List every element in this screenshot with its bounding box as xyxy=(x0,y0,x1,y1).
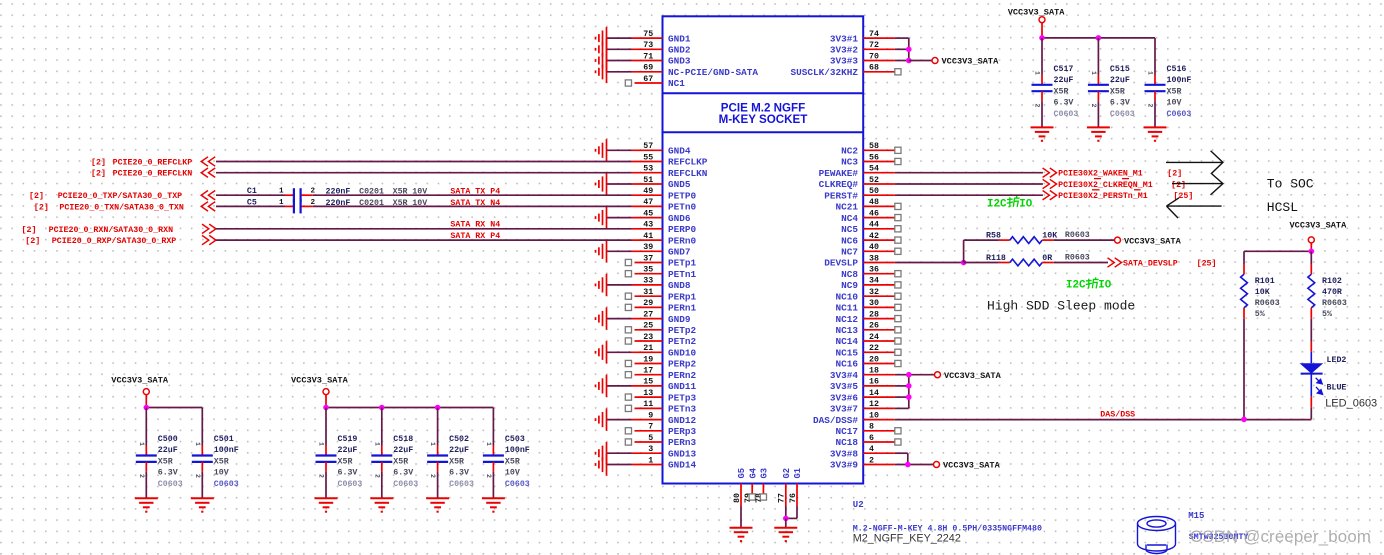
svg-text:VCC3V3_SATA: VCC3V3_SATA xyxy=(111,376,169,386)
svg-text:10V: 10V xyxy=(505,469,520,478)
svg-text:NC-PCIE/GND-SATA: NC-PCIE/GND-SATA xyxy=(668,67,758,78)
svg-text:X5R: X5R xyxy=(338,457,353,466)
svg-text:GND9: GND9 xyxy=(668,314,691,325)
pin 72 3V3#2 xyxy=(830,41,909,55)
svg-text:2: 2 xyxy=(1147,104,1154,108)
pin 52 CLKREQ# xyxy=(819,176,895,190)
annotation arrow right 2 xyxy=(1172,183,1223,185)
svg-text:PERp3: PERp3 xyxy=(668,426,697,437)
svg-text:C0603: C0603 xyxy=(1167,110,1192,119)
pin 11 PETn3 xyxy=(625,400,696,414)
svg-text:3V3#2: 3V3#2 xyxy=(830,45,859,56)
svg-text:VCC3V3_SATA: VCC3V3_SATA xyxy=(291,376,349,386)
svg-text:[25]: [25] xyxy=(1197,259,1217,269)
svg-text:75: 75 xyxy=(643,30,653,39)
pin 21 GND10 xyxy=(596,341,697,363)
pin 19 PERp2 xyxy=(625,355,696,369)
svg-text:C515: C515 xyxy=(1110,65,1130,74)
pin 75 GND1 xyxy=(596,27,691,49)
wire PERST# xyxy=(895,194,1043,196)
svg-text:2: 2 xyxy=(318,474,325,478)
svg-text:33: 33 xyxy=(643,277,653,286)
svg-text:C500: C500 xyxy=(158,435,178,444)
pin 36 NC8 xyxy=(841,266,901,280)
svg-text:GND11: GND11 xyxy=(668,381,697,392)
annotation To SOC xyxy=(1267,177,1314,192)
svg-text:45: 45 xyxy=(643,209,653,218)
svg-text:22uF: 22uF xyxy=(338,446,358,455)
pin 28 NC12 xyxy=(835,310,901,324)
svg-text:NC18: NC18 xyxy=(835,437,858,448)
annotation arrow left xyxy=(1167,198,1222,218)
svg-text:I2C: I2C xyxy=(1066,280,1086,292)
ground G2/G1 xyxy=(774,528,797,541)
svg-text:PERn1: PERn1 xyxy=(668,303,697,314)
junctions 3V3 bus mid xyxy=(906,372,912,400)
svg-text:NC9: NC9 xyxy=(841,280,858,291)
port PCIE20_0_RXP/SATA30_0_RXP xyxy=(25,235,216,246)
wire R58 to VCC xyxy=(1054,239,1115,241)
svg-text:C0603: C0603 xyxy=(158,480,183,489)
svg-text:PETn2: PETn2 xyxy=(668,336,697,347)
svg-text:9: 9 xyxy=(648,411,653,420)
svg-text:5: 5 xyxy=(648,434,653,443)
pin 16 3V3#5 xyxy=(830,378,895,392)
wire R118 to port xyxy=(1054,262,1108,264)
svg-text:PCIE20_0_TXN/SATA30_0_TXN: PCIE20_0_TXN/SATA30_0_TXN xyxy=(59,202,183,212)
svg-text:G1: G1 xyxy=(793,468,803,479)
svg-text:C517: C517 xyxy=(1054,65,1074,74)
svg-text:36: 36 xyxy=(869,266,879,275)
power symbol VCC3V3_SATA (mid) xyxy=(935,371,1002,381)
pin 71 GND3 xyxy=(596,49,691,71)
pin 78 G3 xyxy=(755,468,769,503)
svg-text:PERST#: PERST# xyxy=(824,190,858,201)
wire TXN to C5 xyxy=(216,205,285,207)
junction cap bank top xyxy=(1039,35,1101,41)
svg-text:X5R: X5R xyxy=(1110,87,1125,96)
label SATA RX N4 xyxy=(450,221,500,230)
svg-text:VCC3V3_SATA: VCC3V3_SATA xyxy=(1124,236,1182,246)
svg-text:U2: U2 xyxy=(853,500,864,510)
svg-text:GND3: GND3 xyxy=(668,56,691,67)
pin 58 NC2 xyxy=(841,142,901,156)
svg-text:GND5: GND5 xyxy=(668,179,691,190)
svg-text:R118: R118 xyxy=(986,254,1006,263)
svg-text:PERn0: PERn0 xyxy=(668,235,697,246)
svg-text:100nF: 100nF xyxy=(214,446,239,455)
svg-text:GND2: GND2 xyxy=(668,45,691,56)
svg-text:NC16: NC16 xyxy=(835,359,858,370)
svg-text:40: 40 xyxy=(869,243,879,252)
svg-text:2: 2 xyxy=(869,456,874,465)
power symbol VCC3V3_SATA (top near connector) xyxy=(932,57,999,67)
svg-text:PETp3: PETp3 xyxy=(668,392,697,403)
svg-text:C0603: C0603 xyxy=(505,480,530,489)
pin 57 GND4 xyxy=(596,139,691,161)
svg-text:GND4: GND4 xyxy=(668,146,691,157)
svg-text:R0603: R0603 xyxy=(1255,299,1280,308)
svg-text:31: 31 xyxy=(643,288,653,297)
pin 18 3V3#4 xyxy=(830,367,895,381)
svg-text:X5R: X5R xyxy=(214,457,229,466)
svg-text:22uF: 22uF xyxy=(158,446,178,455)
pin 41 PERn0 xyxy=(632,232,697,246)
svg-text:REFCLKN: REFCLKN xyxy=(668,168,708,179)
svg-text:C0603: C0603 xyxy=(1110,110,1135,119)
capacitor C502 22uF xyxy=(426,408,474,512)
port PCIE30X2_PERSTn_M1 xyxy=(1043,190,1194,201)
svg-text:56: 56 xyxy=(869,153,879,162)
svg-text:52: 52 xyxy=(869,176,879,185)
pin 69 NC-PCIE/GND-SATA xyxy=(596,61,759,83)
svg-text:REFCLKP: REFCLKP xyxy=(668,157,708,168)
svg-text:G4: G4 xyxy=(748,467,758,478)
pin 80 G5 xyxy=(733,468,747,506)
wire to VCC3V3_SATA top xyxy=(909,60,932,62)
svg-text:10V: 10V xyxy=(1167,99,1182,108)
wire G5 to ground xyxy=(740,506,742,528)
pin 7 PERp3 xyxy=(625,423,696,437)
annotation I2C IO (upper green) xyxy=(987,196,1033,210)
label DAS/DSS xyxy=(1100,410,1135,420)
svg-text:NC17: NC17 xyxy=(835,426,858,437)
wire G2 to ground xyxy=(785,518,787,527)
capacitor C518 22uF xyxy=(370,408,418,512)
wire C5 to pin 47 xyxy=(313,205,632,207)
svg-text:22uF: 22uF xyxy=(1054,76,1074,85)
svg-text:10: 10 xyxy=(869,411,879,420)
svg-text:PCIE20_0_RXP/SATA30_0_RXP: PCIE20_0_RXP/SATA30_0_RXP xyxy=(52,236,176,246)
svg-text:CLKREQ#: CLKREQ# xyxy=(819,179,859,190)
svg-text:3: 3 xyxy=(648,445,653,454)
svg-text:PEWAKE#: PEWAKE# xyxy=(819,168,859,179)
pin 34 NC9 xyxy=(841,277,901,291)
svg-text:73: 73 xyxy=(643,41,653,50)
pin 13 PETp3 xyxy=(625,389,696,403)
standoff M15 symbol xyxy=(1138,517,1176,554)
svg-text:PETn1: PETn1 xyxy=(668,269,697,280)
svg-text:19: 19 xyxy=(643,355,653,364)
capacitor C516 100nF xyxy=(1144,38,1192,141)
ground G5 xyxy=(730,528,753,541)
pin 68 SUSCLK/32KHZ xyxy=(790,64,901,78)
wire R101/R102 top rail xyxy=(1244,250,1311,252)
svg-text:G5: G5 xyxy=(737,468,747,479)
svg-text:3V3#3: 3V3#3 xyxy=(830,56,859,67)
svg-text:49: 49 xyxy=(643,187,653,196)
pin 38 DEVSLP xyxy=(824,254,895,268)
svg-text:37: 37 xyxy=(643,254,653,263)
label M2_NGFF_KEY_2242 xyxy=(853,533,961,545)
pin 45 GND6 xyxy=(596,206,691,228)
svg-text:NC4: NC4 xyxy=(841,213,858,224)
svg-text:18: 18 xyxy=(869,367,879,376)
svg-text:74: 74 xyxy=(869,30,879,39)
svg-text:28: 28 xyxy=(869,310,879,319)
svg-text:6.3V: 6.3V xyxy=(158,469,178,478)
svg-text:C503: C503 xyxy=(505,435,525,444)
pin 6 NC18 xyxy=(835,434,901,448)
svg-text:NC13: NC13 xyxy=(835,325,858,336)
svg-text:SUSCLK/32KHZ: SUSCLK/32KHZ xyxy=(790,67,858,78)
port PCIE20_0_REFCLKP xyxy=(91,157,215,168)
pin 54 PEWAKE# xyxy=(819,165,895,179)
wire CLKREQ# xyxy=(895,183,1043,185)
svg-text:C518: C518 xyxy=(393,435,413,444)
pin 25 PETp2 xyxy=(625,322,696,336)
svg-text:LED2: LED2 xyxy=(1327,356,1347,365)
svg-text:NC21: NC21 xyxy=(835,202,858,213)
connector U2 PCIE M.2 NGFF M-KEY socket body xyxy=(663,16,864,483)
wire 3V3#9 to power xyxy=(895,464,934,466)
pin 51 GND5 xyxy=(596,173,691,195)
svg-text:IO: IO xyxy=(1019,198,1032,210)
power symbol VCC3V3_SATA (bank2) xyxy=(291,376,349,408)
pin 55 REFCLKP xyxy=(632,153,708,167)
svg-text:X5R: X5R xyxy=(393,457,408,466)
pin 32 NC10 xyxy=(835,288,901,302)
wire REFCLKP xyxy=(216,161,632,163)
svg-text:3V3#7: 3V3#7 xyxy=(830,404,858,415)
svg-text:To SOC: To SOC xyxy=(1267,177,1314,192)
svg-text:R0603: R0603 xyxy=(1065,231,1090,240)
pin 49 PETP0 xyxy=(632,187,697,201)
pin 3 GND13 xyxy=(596,442,697,464)
capacitor C5 220nF xyxy=(247,198,427,213)
wire REFCLKN xyxy=(216,172,632,174)
label SATA TX P4 xyxy=(450,188,500,197)
svg-text:M2_NGFF_KEY_2242: M2_NGFF_KEY_2242 xyxy=(853,533,961,545)
junction pin2 bus xyxy=(905,462,911,468)
wire PEWAKE# xyxy=(895,172,1043,174)
svg-text:PERn3: PERn3 xyxy=(668,437,697,448)
svg-text:CSDN @creeper_boom: CSDN @creeper_boom xyxy=(1190,527,1371,546)
svg-text:12: 12 xyxy=(869,400,879,409)
svg-text:C501: C501 xyxy=(214,435,234,444)
capacitor C1 220nF xyxy=(247,187,427,202)
svg-text:1: 1 xyxy=(279,199,284,207)
resistor R118 0R xyxy=(986,254,1090,266)
capacitor C500 22uF xyxy=(135,408,183,512)
pin 9 GND12 xyxy=(596,408,697,430)
svg-text:100nF: 100nF xyxy=(505,446,530,455)
svg-text:[2]: [2] xyxy=(1167,169,1182,179)
svg-text:50: 50 xyxy=(869,187,879,196)
port PCIE20_0_REFCLKN xyxy=(91,168,215,179)
wire R101 bottom xyxy=(1243,319,1245,420)
svg-text:71: 71 xyxy=(643,52,653,61)
svg-text:X5R: X5R xyxy=(449,457,464,466)
svg-text:35: 35 xyxy=(643,266,653,275)
svg-text:46: 46 xyxy=(869,209,879,218)
junction G2/G1 xyxy=(783,516,789,522)
svg-text:26: 26 xyxy=(869,322,879,331)
pin 67 NC1 xyxy=(625,75,685,89)
junction top rail xyxy=(1309,249,1315,255)
svg-text:GND7: GND7 xyxy=(668,247,691,258)
svg-text:6.3V: 6.3V xyxy=(449,469,469,478)
pin 20 NC16 xyxy=(835,355,901,369)
power symbol VCC3V3_SATA (bottom) xyxy=(934,461,1001,471)
svg-text:10V: 10V xyxy=(214,469,229,478)
svg-text:3V3#5: 3V3#5 xyxy=(830,381,859,392)
svg-text:R101: R101 xyxy=(1255,277,1275,286)
pin 43 PERP0 xyxy=(632,221,697,235)
watermark CSDN @creeper_boom xyxy=(1190,527,1371,546)
svg-text:NC6: NC6 xyxy=(841,235,858,246)
svg-text:23: 23 xyxy=(643,333,653,342)
pin 2 3V3#9 xyxy=(830,456,895,470)
svg-text:PERp2: PERp2 xyxy=(668,359,697,370)
svg-text:39: 39 xyxy=(643,243,653,252)
power symbol VCC3V3_SATA (right) xyxy=(1290,220,1348,251)
svg-text:GND1: GND1 xyxy=(668,33,691,44)
wire TXP to C1 xyxy=(216,194,285,196)
wire G2/G1 join xyxy=(786,506,797,518)
svg-text:NC1: NC1 xyxy=(668,78,685,89)
pin 29 PERn1 xyxy=(625,299,696,313)
svg-text:M-KEY SOCKET: M-KEY SOCKET xyxy=(719,113,808,126)
pin 27 GND9 xyxy=(596,307,691,329)
pin 33 GND8 xyxy=(596,274,691,296)
capacitor C515 22uF xyxy=(1087,38,1135,141)
resistor R102 470R xyxy=(1308,251,1347,319)
svg-text:38: 38 xyxy=(869,254,879,263)
junction pins 72/70 bus xyxy=(906,47,912,64)
svg-text:[2]: [2] xyxy=(25,236,40,246)
junction R101/DAS xyxy=(1241,417,1247,423)
svg-text:G2: G2 xyxy=(782,468,792,479)
pin 46 NC4 xyxy=(841,209,901,223)
svg-text:DEVSLP: DEVSLP xyxy=(824,258,858,269)
svg-text:22uF: 22uF xyxy=(449,446,469,455)
svg-text:25: 25 xyxy=(643,322,653,331)
power symbol VCC3V3_SATA (bank1) xyxy=(111,376,169,408)
svg-text:DAS/DSS#: DAS/DSS# xyxy=(813,415,858,426)
pin 4 3V3#8 xyxy=(830,445,895,459)
svg-text:PCIE30X2_PERSTn_M1: PCIE30X2_PERSTn_M1 xyxy=(1058,192,1148,201)
svg-text:2: 2 xyxy=(1090,104,1097,108)
svg-text:[2]: [2] xyxy=(34,202,49,212)
svg-text:NC14: NC14 xyxy=(835,336,858,347)
junction DEVSLP xyxy=(961,260,967,266)
diode LED2 BLUE xyxy=(1300,352,1347,397)
pin 14 3V3#6 xyxy=(830,389,895,403)
wire DAS/DSS xyxy=(895,419,1312,421)
svg-text:C0603: C0603 xyxy=(214,480,239,489)
svg-text:41: 41 xyxy=(643,232,653,241)
power symbol VCC3V3_SATA (cap bank top) xyxy=(1008,8,1066,38)
svg-text:NC11: NC11 xyxy=(835,303,858,314)
svg-text:G3: G3 xyxy=(760,468,770,479)
wire DEVSLP branch up xyxy=(964,240,999,262)
svg-text:PETP0: PETP0 xyxy=(668,190,697,201)
wire R102 to LED xyxy=(1310,319,1312,352)
pin 76 G1 xyxy=(789,468,803,506)
junctions cap bank xyxy=(144,405,150,411)
svg-text:1: 1 xyxy=(1147,71,1154,75)
label M15 xyxy=(1188,511,1204,521)
svg-text:29: 29 xyxy=(643,299,653,308)
svg-text:X5R: X5R xyxy=(158,457,173,466)
svg-text:0R: 0R xyxy=(1042,254,1052,263)
annotation arrow zigzag heads xyxy=(1211,151,1223,195)
label SATA TX N4 xyxy=(450,199,500,208)
svg-text:[2]: [2] xyxy=(29,191,44,201)
wire 3V3#4 to power xyxy=(895,374,935,376)
svg-text:R0603: R0603 xyxy=(1065,254,1090,263)
svg-text:NC7: NC7 xyxy=(841,247,858,258)
pin 37 PETp1 xyxy=(625,254,696,268)
label SATA RX P4 xyxy=(450,232,500,241)
svg-text:58: 58 xyxy=(869,142,879,151)
svg-text:NC3: NC3 xyxy=(841,157,858,168)
pin 5 PERn3 xyxy=(625,434,696,448)
svg-text:10K: 10K xyxy=(1255,288,1270,297)
svg-text:PETp2: PETp2 xyxy=(668,325,697,336)
svg-text:44: 44 xyxy=(869,221,879,230)
svg-text:2: 2 xyxy=(1034,104,1041,108)
label SMTW32530MTY xyxy=(1189,533,1249,542)
pin 56 NC3 xyxy=(841,153,901,167)
svg-text:PCIE20_0_TXP/SATA30_0_TXP: PCIE20_0_TXP/SATA30_0_TXP xyxy=(58,191,182,201)
svg-text:2: 2 xyxy=(373,474,380,478)
svg-text:5%: 5% xyxy=(1255,310,1265,319)
svg-text:X5R: X5R xyxy=(1054,87,1069,96)
port PCIE20_0_TXP/SATA30_0_TXP xyxy=(29,191,215,202)
capacitor C503 100nF xyxy=(482,408,530,512)
pin 8 NC17 xyxy=(835,423,901,437)
svg-text:PCIE20_0_REFCLKN: PCIE20_0_REFCLKN xyxy=(113,170,193,179)
svg-text:GND13: GND13 xyxy=(668,448,697,459)
svg-text:C0603: C0603 xyxy=(393,480,418,489)
pin 50 PERST# xyxy=(824,187,895,201)
pin 53 REFCLKN xyxy=(632,165,708,179)
svg-text:PCIE20_0_REFCLKP: PCIE20_0_REFCLKP xyxy=(113,159,193,168)
pin 42 NC6 xyxy=(841,232,901,246)
wire 3V3 bus vertical xyxy=(908,38,910,60)
svg-text:C519: C519 xyxy=(338,435,358,444)
pin 70 3V3#3 xyxy=(830,52,909,66)
svg-text:6.3V: 6.3V xyxy=(1110,99,1130,108)
port PCIE20_0_RXN/SATA30_0_RXN xyxy=(22,224,217,235)
svg-text:34: 34 xyxy=(869,277,879,286)
svg-text:6: 6 xyxy=(869,434,874,443)
svg-text:7: 7 xyxy=(648,423,653,432)
wire RXP xyxy=(216,239,632,241)
svg-text:HCSL: HCSL xyxy=(1267,200,1298,215)
svg-text:22uF: 22uF xyxy=(393,446,413,455)
wire cap bank rail xyxy=(146,407,202,409)
pin 1 GND14 xyxy=(596,453,697,475)
svg-text:42: 42 xyxy=(869,232,879,241)
pin 31 PERp1 xyxy=(625,288,696,302)
svg-text:470R: 470R xyxy=(1322,288,1342,297)
pin 47 PETn0 xyxy=(632,198,697,212)
svg-text:51: 51 xyxy=(643,176,653,185)
svg-text:LED_0603: LED_0603 xyxy=(1325,398,1377,410)
power symbol VCC3V3_SATA (R58) xyxy=(1115,236,1182,246)
svg-text:53: 53 xyxy=(643,165,653,174)
svg-text:[2]: [2] xyxy=(91,158,106,168)
svg-text:6.3V: 6.3V xyxy=(393,469,413,478)
svg-text:GND6: GND6 xyxy=(668,213,691,224)
svg-text:69: 69 xyxy=(643,64,653,73)
svg-text:C0603: C0603 xyxy=(1054,110,1079,119)
svg-text:2: 2 xyxy=(194,474,201,478)
svg-text:GND8: GND8 xyxy=(668,280,691,291)
